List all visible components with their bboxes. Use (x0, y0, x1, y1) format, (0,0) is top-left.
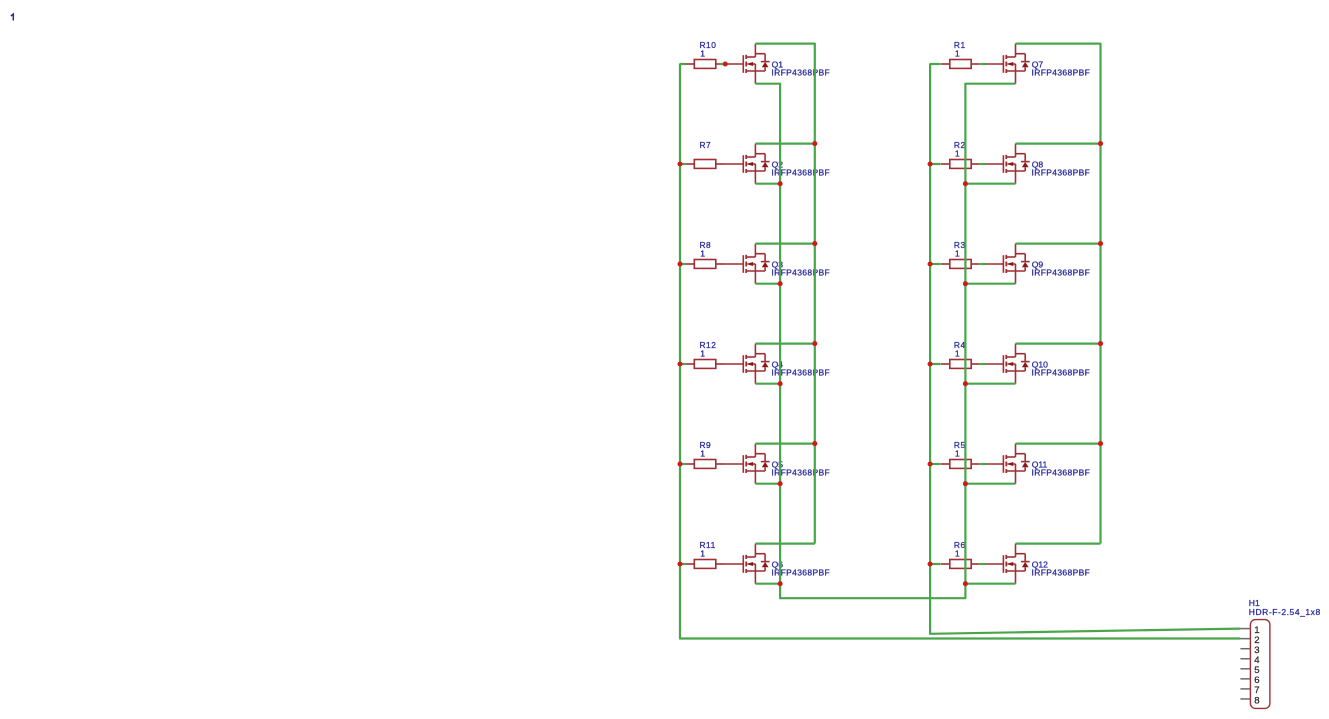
wire right source bus (964, 83, 966, 598)
svg-text:1: 1 (700, 449, 705, 459)
svg-text:R7: R7 (700, 140, 712, 150)
svg-text:1: 1 (955, 349, 960, 359)
resistor R6 (941, 540, 979, 568)
wire drain left row 1 (755, 42, 814, 44)
resistor R8 (686, 240, 726, 268)
junction right drain bus row 5 (1098, 441, 1103, 446)
wire source left row 3 (755, 283, 780, 285)
junction right source bus row 5 (963, 481, 968, 486)
wire gate right to pin 1 (929, 629, 1240, 634)
resistor R4 (941, 340, 979, 368)
transistor Q1 (725, 44, 830, 84)
wire source right row 6 (965, 583, 1015, 585)
svg-text:1: 1 (700, 549, 705, 559)
svg-text:1: 1 (955, 549, 960, 559)
wire drain right row 2 (1016, 143, 1101, 145)
wire drain left row 6 (755, 542, 814, 544)
pin 4 (1240, 655, 1260, 666)
svg-text:1: 1 (955, 249, 960, 259)
svg-text:IRFP4368PBF: IRFP4368PBF (1032, 567, 1091, 577)
wire gate gap right row 2 (979, 163, 986, 165)
wire gate gap right row 3 (979, 263, 986, 265)
junction left source bus row 6 (778, 581, 783, 586)
wire gate stub left row 5 (680, 463, 687, 465)
junction left source bus row 2 (778, 181, 783, 186)
wire gate stub left row 4 (680, 363, 687, 365)
junction right drain bus row 2 (1098, 141, 1103, 146)
svg-text:1: 1 (955, 449, 960, 459)
svg-text:1: 1 (955, 149, 960, 159)
junction R10 gate (723, 61, 728, 66)
junction right source bus row 2 (963, 181, 968, 186)
svg-text:IRFP4368PBF: IRFP4368PBF (1032, 367, 1091, 377)
wire gate gap left row 1 (719, 63, 726, 65)
transistor Q6 (725, 544, 830, 584)
wire source right row 4 (965, 383, 1015, 385)
junction left gate bus row 5 (677, 461, 682, 466)
svg-text:IRFP4368PBF: IRFP4368PBF (1032, 67, 1091, 77)
wire drain right row 6 (1016, 542, 1101, 544)
svg-text:IRFP4368PBF: IRFP4368PBF (1032, 267, 1091, 277)
transistor Q11 (985, 444, 1090, 484)
junction right source bus row 6 (963, 581, 968, 586)
wire gate gap right row 6 (979, 563, 986, 565)
wire source right row 2 (965, 183, 1015, 185)
wire gate left to pin 2 (679, 637, 1240, 639)
transistor Q2 (725, 144, 830, 184)
wire left drain bus (814, 43, 816, 544)
wire left gate bus (679, 64, 681, 639)
wire source link (779, 597, 966, 599)
wire source left row 5 (755, 483, 780, 485)
pin 5 (1240, 665, 1259, 676)
wire source left row 1 (755, 83, 780, 85)
junction left drain bus row 3 (812, 241, 817, 246)
wire source right row 1 (965, 83, 1015, 85)
svg-text:IRFP4368PBF: IRFP4368PBF (771, 67, 830, 77)
wire gate stub right row 1 (930, 63, 941, 65)
junction left gate bus row 6 (677, 561, 682, 566)
junction right gate bus row 2 (928, 161, 933, 166)
wire gate gap right row 1 (979, 63, 986, 65)
wire gate stub right row 3 (930, 263, 941, 265)
wire gate stub right row 2 (930, 163, 941, 165)
svg-text:8: 8 (1254, 695, 1259, 706)
wire source left row 4 (755, 383, 780, 385)
transistor Q4 (725, 344, 830, 384)
junction right gate bus row 4 (928, 361, 933, 366)
sheet number 1 (11, 14, 13, 20)
junction right gate bus row 6 (928, 561, 933, 566)
wire drain right row 5 (1016, 443, 1101, 445)
transistor Q12 (985, 544, 1090, 584)
wire source right row 3 (965, 283, 1015, 285)
resistor R3 (941, 240, 979, 268)
resistor R12 (686, 340, 726, 368)
wire drain left row 5 (755, 443, 814, 445)
resistor R1 (941, 40, 979, 68)
transistor Q8 (985, 144, 1090, 184)
junction left source bus row 4 (778, 381, 783, 386)
junction left gate bus row 2 (677, 161, 682, 166)
junction left gate bus row 4 (677, 361, 682, 366)
pin 3 (1240, 645, 1259, 656)
transistor Q7 (985, 44, 1090, 84)
junction right source bus row 4 (963, 381, 968, 386)
junction left drain bus row 4 (812, 341, 817, 346)
pin 6 (1240, 675, 1259, 686)
svg-text:1: 1 (955, 49, 960, 59)
junction left drain bus row 2 (812, 141, 817, 146)
wire left source bus (779, 83, 781, 598)
junction right gate bus row 3 (928, 261, 933, 266)
transistor Q5 (725, 444, 830, 484)
svg-text:IRFP4368PBF: IRFP4368PBF (1032, 467, 1091, 477)
wire gate stub left row 2 (680, 163, 687, 165)
junction right source bus row 3 (963, 281, 968, 286)
resistor R7 (686, 140, 726, 168)
svg-text:1: 1 (700, 49, 705, 59)
connector H1 (1249, 598, 1321, 708)
resistor R9 (686, 440, 726, 468)
wire gate stub right row 6 (930, 563, 941, 565)
svg-text:1: 1 (700, 349, 705, 359)
svg-text:HDR-F-2.54_1x8: HDR-F-2.54_1x8 (1249, 607, 1321, 617)
junction right drain bus row 4 (1098, 341, 1103, 346)
transistor Q3 (725, 244, 830, 284)
junction left source bus row 5 (778, 481, 783, 486)
wire gate stub left row 3 (680, 263, 687, 265)
wire source right row 5 (965, 483, 1015, 485)
wire drain left row 2 (755, 143, 814, 145)
junction left drain bus row 5 (812, 441, 817, 446)
wire drain right row 3 (1016, 243, 1101, 245)
pin 8 (1240, 695, 1259, 706)
wire drain right row 4 (1016, 343, 1101, 345)
svg-text:1: 1 (700, 249, 705, 259)
wire right drain bus (1099, 43, 1101, 544)
wire gate stub left row 1 (680, 63, 687, 65)
wire drain right row 1 (1016, 42, 1101, 44)
wire gate stub right row 4 (930, 363, 941, 365)
wire drain left row 4 (755, 343, 814, 345)
wire gate stub right row 5 (930, 463, 941, 465)
wire source left row 2 (755, 183, 780, 185)
wire gate gap right row 5 (979, 463, 986, 465)
pin 7 (1240, 685, 1259, 696)
wire drain left row 3 (755, 243, 814, 245)
transistor Q9 (985, 244, 1090, 284)
pin 1 (1240, 625, 1259, 636)
wire right gate bus (929, 64, 931, 634)
pin 2 (1240, 635, 1259, 646)
wire gate gap right row 4 (979, 363, 986, 365)
junction left source bus row 3 (778, 281, 783, 286)
svg-text:IRFP4368PBF: IRFP4368PBF (1032, 167, 1091, 177)
resistor R11 (686, 540, 726, 568)
junction right drain bus row 3 (1098, 241, 1103, 246)
junction left gate bus row 3 (677, 261, 682, 266)
wire source left row 6 (755, 583, 780, 585)
junction right gate bus row 5 (928, 461, 933, 466)
transistor Q10 (985, 344, 1090, 384)
resistor R2 (941, 140, 979, 168)
resistor R10 (686, 40, 720, 68)
resistor R5 (941, 440, 979, 468)
wire gate stub left row 6 (680, 563, 687, 565)
